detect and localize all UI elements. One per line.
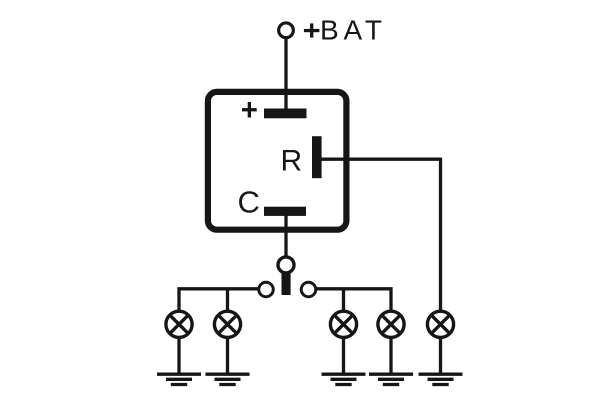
- svg-text:BAT: BAT: [320, 14, 387, 45]
- svg-text:C: C: [238, 185, 260, 220]
- svg-text:R: R: [281, 144, 303, 177]
